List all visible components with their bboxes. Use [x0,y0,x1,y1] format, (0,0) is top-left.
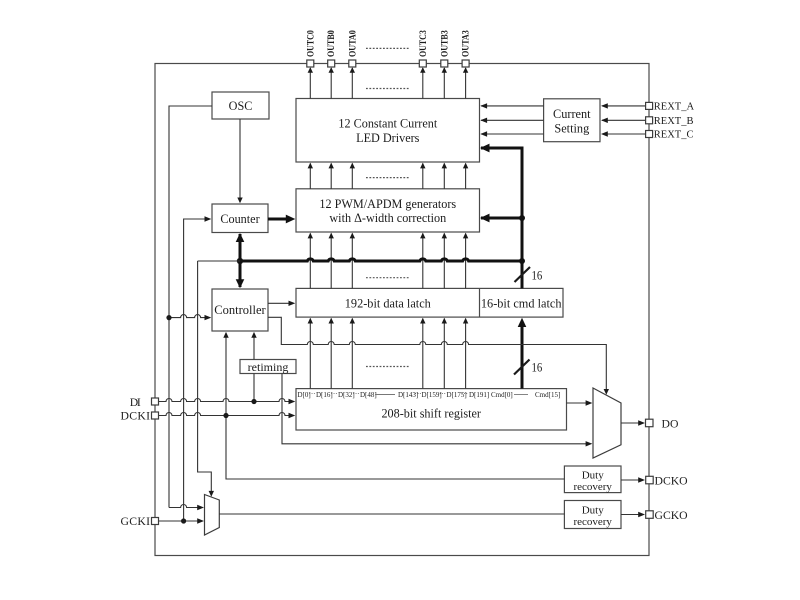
junction dot bus/PWM [519,215,525,221]
mux M2: GCKI mux [205,495,220,536]
arrowheads into LED bottom x6 [308,163,313,169]
dotted separator top (above border) [366,47,410,49]
svg-text:recovery: recovery [573,516,612,528]
chip outer boundary [155,64,649,556]
wire PWM->LED x6 [309,164,311,189]
wire OSC left net down [169,106,212,508]
wire bus to PWM [481,217,522,220]
wire OSC->Counter [239,119,241,202]
arrowhead REXT_A into Current Setting [601,103,608,108]
junction dot DI / retiming [251,399,256,404]
arrowhead up into cmd latch bottom [518,318,527,327]
dotted separator LED/PWM [366,177,410,179]
svg-text:Current: Current [553,107,591,121]
block U-LED: 12 Constant Current LED Drivers [296,99,480,163]
svg-text:LED Drivers: LED Drivers [356,131,420,145]
wire Current Setting -> LED (C) [481,133,544,135]
svg-text:DI: DI [130,396,141,409]
wire GCKI net [158,520,199,522]
block U-DR2: Duty recovery (GCKO) [564,501,621,529]
arrowhead into DO mux in2 [586,441,593,446]
wire REXT_C -> Current Setting [602,133,646,135]
junction dot GCKI / counter wire [181,518,186,523]
wire SR -> DO mux in1 [567,402,588,404]
svg-text:with Δ-width correction: with Δ-width correction [329,211,446,225]
wire LED->pin OUTA3 [465,68,467,99]
svg-text:OUTA0: OUTA0 [348,30,358,57]
svg-text:···: ··· [415,390,422,398]
wire counter-controller vertical [239,234,242,287]
arrowhead into GCKO pin [638,512,645,517]
arrowhead GCKI into mux in2 [197,518,204,523]
wire LED->pin OUTC0 [309,68,311,99]
svg-text:Duty: Duty [582,470,605,482]
wire OSC net -> Controller left (hops at 183.6,197.6) [169,315,206,318]
wire SR->cmd latch vertical [521,326,524,389]
wire bus vertical + top corner into LED [481,148,522,288]
block U-DR1: Duty recovery (DCKO) [564,466,621,493]
arrowhead counter->PWM [286,215,296,224]
pin GCKI [121,515,159,528]
bus width slash 16 (lower) [514,360,543,375]
arrowhead C into LED right [480,131,487,136]
arrowhead OSC->Counter [237,198,242,204]
svg-text:12 PWM/APDM generators: 12 PWM/APDM generators [319,197,456,211]
svg-text:16-bit cmd latch: 16-bit cmd latch [481,296,562,310]
mux M1: DO output mux [593,388,621,458]
pin OUTB0 [327,30,337,67]
wire controller -> data latch [268,302,290,304]
arrowhead into DO mux select [604,389,609,395]
block U-CS: Current Setting [544,99,600,142]
block U-CNT: Counter [212,204,268,233]
arrowhead into GCKI mux in1 [197,505,204,510]
arrowheads into PWM bottom x6 [308,233,313,239]
svg-text:OUTB3: OUTB3 [440,30,450,57]
pin DO [646,417,679,430]
svg-text:DCKI: DCKI [121,409,151,422]
pin OUTA3 [462,30,472,67]
wire retiming -> controller [253,337,255,360]
svg-text:···: ··· [309,390,316,398]
arrowhead into Controller bottom (retiming) [251,332,256,338]
svg-text:DCKO: DCKO [655,474,688,487]
arrowhead into Counter left [205,216,212,221]
wire GCKI vertical -> Counter [184,219,206,521]
pin OUTA0 [348,30,358,67]
pin REXT_A [646,101,695,112]
wire LATCH->PWM x6 [309,234,311,289]
svg-text:Cmd[15]: Cmd[15] [535,391,560,399]
arrowhead DI into SR [289,399,296,404]
svg-text:DO: DO [662,417,679,430]
svg-text:···: ··· [353,390,360,398]
arrowhead up into Counter bottom [236,233,245,242]
svg-text:GCKI: GCKI [121,515,151,528]
svg-text:208-bit shift register: 208-bit shift register [381,406,481,420]
thick cmd bus [240,148,522,389]
pin OUTB3 [440,30,450,67]
svg-text:REXT_A: REXT_A [654,101,695,112]
wire SR->LATCH x6 [309,319,311,389]
svg-text:16: 16 [532,361,543,375]
arrowheads into LATCH bottom x6 [308,318,313,324]
block U-PWM: 12 PWM/APDM generators [296,189,480,232]
wire REXT_B -> Current Setting [602,119,646,121]
bus width slash 16 (upper) [515,267,543,283]
dotted separator LATCH/SR [366,366,410,368]
wire GCKI mux -> Duty recovery 2 [219,513,564,515]
svg-text:retiming: retiming [248,360,289,374]
svg-text:GCKO: GCKO [655,509,688,522]
arrowhead bus into PWM right [480,214,490,223]
svg-text:D[191] Cmd[0]: D[191] Cmd[0] [469,391,513,399]
arrowhead SR into DO mux in1 [586,400,593,405]
wire bus junction -> left branch connector [198,260,240,262]
svg-text:REXT_B: REXT_B [654,116,694,127]
svg-text:Counter: Counter [220,212,259,226]
wire Duty2 -> GCKO [621,514,640,516]
wire DCKI net [158,413,290,416]
svg-text:···: ··· [439,390,446,398]
wire bus horizontal y261 with hops [240,259,522,261]
wire REXT_A -> Current Setting [602,105,646,107]
svg-text:OUTC0: OUTC0 [306,30,316,57]
svg-text:···: ··· [331,390,338,398]
arrowhead into Controller bottom (DCKI) [223,332,228,338]
svg-text:192-bit data latch: 192-bit data latch [345,296,431,310]
wire DO mux -> DO pin [621,422,640,424]
svg-text:Setting: Setting [554,121,589,135]
pin OUTC0 [306,30,316,67]
wire Current Setting -> LED (B) [481,119,544,121]
svg-text:OUTB0: OUTB0 [327,30,337,57]
svg-text:Controller: Controller [214,303,266,317]
junction dot DCKI / branch [223,413,228,418]
pin DCKO [646,474,688,487]
pin OUTC3 [419,30,429,67]
svg-text:OUTA3: OUTA3 [462,30,472,57]
pin DI [130,396,159,409]
svg-text:REXT_C: REXT_C [654,130,694,141]
arrowhead A into LED right [480,103,487,108]
label row D[0]..Cmd[15] [298,390,561,399]
wire bus branch -> GCKI mux select [198,261,212,492]
wire controller -> DO mux select (hops x6) [268,317,606,389]
arrowhead bus into LED right [480,144,490,153]
arrowhead REXT_B into Current Setting [601,118,608,123]
arrowhead DCKI into SR [289,413,296,418]
svg-text:···: ··· [461,390,468,398]
block U-LATCH: 192-bit data latch [296,288,563,317]
wire LED->pin OUTB0 [330,68,332,99]
wire DI net [158,399,290,402]
arrowheads into pins (up) x6 [308,67,469,323]
dotted separator PWM/LATCH [366,277,410,279]
arrowhead into DO pin [638,420,645,425]
wire retiming -> DO mux in2 [282,374,588,444]
junction dot bus y261 [519,258,525,264]
wire LED->pin OUTB3 [443,68,445,99]
block U-CTRL: Controller [212,289,268,331]
arrowhead into Controller left [205,315,212,320]
wire Duty1 -> DCKO [621,479,640,481]
svg-text:12 Constant Current: 12 Constant Current [338,117,437,131]
svg-text:Duty: Duty [582,505,605,517]
junction dot OSC net / controller input [166,315,171,320]
arrowhead REXT_C into Current Setting [601,131,608,136]
arrowhead into DCKO pin [638,477,645,482]
wire DI -> retiming [253,374,255,402]
pin GCKO [646,509,688,522]
block U-SR: 208-bit shift register [296,389,567,430]
arrowhead into GCKI mux select [209,491,214,497]
wire DCKI branch: controller + duty1 [226,333,564,479]
arrowhead B into LED right [480,118,487,123]
junction dot counter/controller/bus [237,258,243,264]
arrowhead into data latch left [289,301,296,306]
pin DCKI [121,409,159,422]
svg-text:16: 16 [532,269,543,283]
pin REXT_C [646,130,694,141]
arrowhead down into Controller top [236,279,245,288]
block U-RET: retiming [240,360,296,374]
svg-text:OUTC3: OUTC3 [419,30,429,57]
pin REXT_B [646,116,694,127]
block U-OSC: OSC [212,92,269,119]
wire LED->pin OUTC3 [422,68,424,99]
wire LED->pin OUTA0 [351,68,353,99]
wire Current Setting -> LED (A) [481,105,544,107]
svg-text:D[48]: D[48] [360,391,377,399]
wire counter->PWM [268,218,288,221]
svg-text:OSC: OSC [229,99,253,113]
wire OSC net -> GCKI mux in1 (hop at 183.6) [169,505,199,508]
svg-text:recovery: recovery [573,481,612,493]
dotted separator below border [366,88,410,90]
